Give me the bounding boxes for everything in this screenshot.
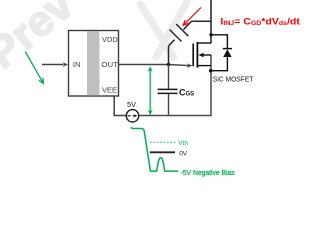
svg-text:CGS: CGS	[179, 87, 194, 97]
svg-text:OUT: OUT	[101, 60, 118, 69]
svg-text:VDD: VDD	[102, 35, 118, 44]
svg-text:SiC MOSFET: SiC MOSFET	[213, 75, 254, 84]
svg-text:VEE: VEE	[102, 85, 117, 94]
svg-text:-5V Negative Bias: -5V Negative Bias	[181, 170, 235, 177]
svg-text:5V: 5V	[127, 100, 136, 109]
svg-text:Vth: Vth	[178, 140, 188, 147]
svg-text:IINJ= CGD*dVds/dt: IINJ= CGD*dVds/dt	[220, 15, 300, 27]
svg-text:0V: 0V	[179, 151, 188, 158]
svg-text:IN: IN	[73, 60, 81, 69]
